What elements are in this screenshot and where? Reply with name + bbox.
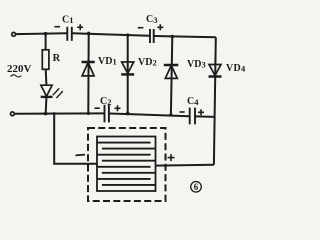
wire top rail left segment [16, 32, 67, 35]
wire VD1 branch [87, 33, 89, 113]
capacitor C2 [105, 105, 109, 123]
C2 minus [95, 107, 100, 109]
wire R-LED branch top [45, 34, 47, 50]
circled figure number 6 [191, 182, 202, 193]
electrode grid bars [97, 143, 156, 185]
electrode grid dashed enclosure [88, 128, 166, 201]
svg-text:C2: C2 [100, 96, 111, 107]
node VD1 top [87, 32, 91, 36]
wire bottom rail middle segment [109, 114, 189, 117]
wire VD3 branch [171, 37, 172, 115]
svg-text:VD2: VD2 [138, 57, 157, 68]
svg-text:C1: C1 [62, 14, 73, 25]
electrode grid inner frame [97, 137, 156, 192]
C3 minus [138, 27, 144, 29]
capacitor C1 [67, 27, 72, 41]
node minus branch [53, 112, 56, 115]
LED VL [41, 85, 64, 98]
C3 plus [157, 24, 163, 30]
wire top rail right segment [154, 36, 216, 37]
diode VD2 [121, 62, 134, 74]
capacitor C3 [150, 29, 154, 43]
diode VD1 [82, 62, 95, 76]
C1 plus [77, 24, 83, 30]
terminal bottom-left [11, 112, 15, 116]
node VD2 top [126, 33, 129, 36]
node VD3 top [171, 35, 175, 39]
C2 plus [115, 105, 121, 111]
grid plus [168, 154, 175, 161]
svg-text:220V: 220V [7, 63, 32, 75]
svg-text:C3: C3 [146, 14, 157, 25]
polarity signs [11, 24, 205, 161]
C4 plus [198, 109, 204, 115]
svg-text:R: R [53, 53, 61, 64]
node LED bottom [44, 112, 48, 116]
diode VD3 [164, 65, 179, 78]
svg-text:VD1: VD1 [98, 56, 117, 67]
node VD3 bottom [169, 113, 172, 116]
node VD2 bottom [126, 112, 130, 116]
diode VD4 [209, 65, 222, 77]
resistor R [42, 50, 49, 70]
wire LED to bottom rail [45, 98, 48, 114]
wire top rail middle segment [73, 33, 150, 36]
wire resistor to LED [45, 69, 48, 85]
svg-text:6: 6 [194, 182, 199, 192]
C4 minus [180, 111, 185, 113]
AC tilde under 220V [11, 75, 22, 77]
C1 minus [54, 26, 60, 28]
node R top [44, 32, 48, 36]
wire plus output to grid [156, 164, 214, 167]
node VD1 bottom [87, 112, 90, 115]
wire right vertical (VD4 branch) [214, 37, 216, 165]
junction dots [44, 32, 174, 117]
terminal top-left [12, 32, 16, 36]
svg-text:VD3: VD3 [187, 59, 206, 70]
grid minus [76, 154, 86, 157]
svg-text:VD4: VD4 [226, 63, 246, 74]
wire bottom rail right segment [196, 115, 215, 118]
wire bottom rail left segment [14, 112, 104, 114]
svg-text:C4: C4 [187, 96, 199, 107]
wire minus output branch [54, 114, 97, 164]
capacitor C4 [190, 108, 195, 125]
wire VD2 branch [127, 35, 129, 114]
